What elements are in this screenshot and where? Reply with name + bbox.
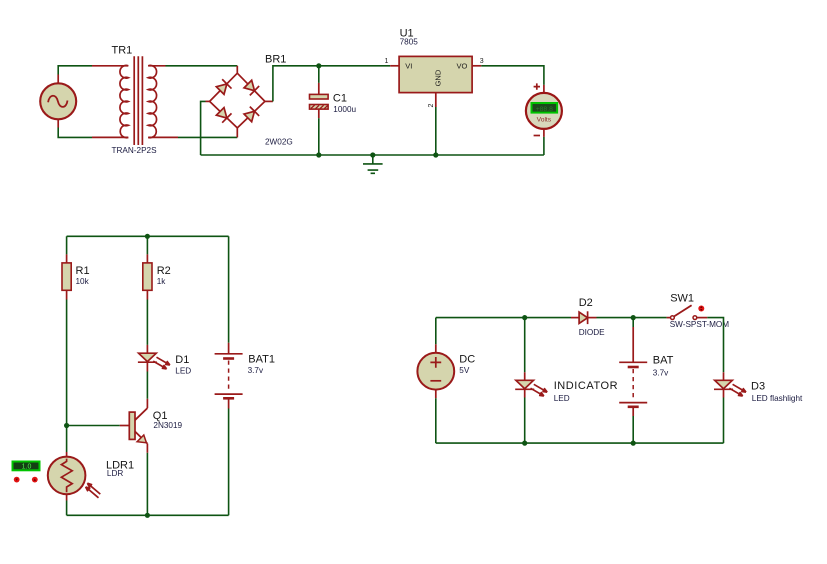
node emitter bottom	[145, 513, 150, 518]
wire D1 anode pin stub	[146, 345, 148, 353]
wire pin1 stub of U1	[390, 65, 399, 67]
svg-text:D3: D3	[751, 380, 765, 392]
capacitor C1	[310, 66, 357, 155]
svg-text:SW-SPST-MOM: SW-SPST-MOM	[670, 320, 730, 329]
wire BR1 right pin stub	[265, 100, 273, 102]
svg-text:LED: LED	[175, 366, 191, 375]
LED D1	[138, 353, 191, 375]
wire AC top to transformer primary	[58, 66, 92, 75]
wire right column lower	[228, 409, 230, 516]
svg-text:DC: DC	[459, 354, 475, 366]
wire D1 to Q1 collector	[146, 372, 148, 399]
diode D2	[579, 297, 605, 337]
wire transformer primary bottom pin	[92, 136, 128, 138]
voltmeter U2	[526, 93, 562, 129]
svg-text:VI: VI	[405, 62, 412, 71]
svg-text:VO: VO	[457, 62, 468, 71]
wire D3 to bottom rail	[723, 398, 725, 444]
BR1 diode upper-left	[216, 79, 232, 95]
wire SW1 right pin stub	[697, 317, 708, 319]
wire voltmeter bottom pin stub	[543, 129, 545, 137]
wire BR1 top pin stub	[236, 66, 238, 73]
wire D1 cathode pin stub	[146, 362, 148, 371]
wire BAT bottom pin stub	[632, 407, 634, 416]
BR1 diode lower-left	[216, 107, 232, 123]
wire bottom rail right circuit	[436, 442, 724, 444]
wire BAT column lower	[632, 416, 634, 443]
wire BR1 left pin stub	[206, 100, 210, 102]
voltmeter minus label	[534, 135, 540, 137]
wire transformer secondary bottom pin	[148, 136, 178, 138]
LED INDICATOR	[515, 380, 618, 403]
wire right column upper	[228, 236, 230, 342]
wire transformer secondary top pin	[148, 65, 165, 67]
wire R1 bottom pin stub	[66, 290, 68, 299]
wire BAT top pin stub	[632, 327, 634, 362]
wire switch to D3	[707, 318, 723, 373]
svg-text:3.7v: 3.7v	[248, 366, 264, 375]
svg-text:10k: 10k	[76, 277, 90, 286]
wire AC bottom pin stub	[57, 120, 59, 128]
wire R1 top pin stub	[66, 254, 68, 263]
resistor R2	[143, 263, 171, 290]
wire BR1 negative to bottom rail	[201, 101, 206, 155]
wire LDR top pin stub	[66, 452, 68, 457]
svg-text:D1: D1	[175, 354, 189, 366]
wire AC top pin stub	[57, 75, 59, 83]
svg-text:Volts: Volts	[537, 116, 552, 123]
wire AC bottom to transformer primary	[58, 128, 92, 138]
svg-text:1000u: 1000u	[333, 105, 356, 114]
wire D3 cathode pin stub	[723, 389, 725, 397]
switch SW1	[670, 293, 730, 329]
svg-text:BAT: BAT	[653, 355, 674, 367]
AC source	[40, 83, 76, 119]
wire U1 output to voltmeter	[481, 66, 544, 85]
wire D2 cathode pin stub	[588, 317, 597, 319]
transistor Q1	[129, 399, 182, 444]
svg-text:SW1: SW1	[670, 293, 694, 305]
node ground tap	[370, 152, 375, 157]
node indicator top	[522, 315, 527, 320]
node U1 pin2	[433, 152, 438, 157]
wire DC bottom pin stub	[435, 390, 437, 399]
wire secondary bottom to bridge	[178, 136, 237, 138]
svg-text:2W02G: 2W02G	[265, 138, 293, 147]
wire R2 to D1	[146, 300, 148, 345]
svg-text:R2: R2	[157, 265, 171, 277]
wire emitter to bottom rail	[146, 453, 148, 516]
LDR LDR1	[48, 457, 134, 495]
wire BAT column upper	[632, 318, 634, 327]
wire DC top pin stub	[435, 344, 437, 353]
wire base of Q1	[67, 425, 120, 427]
LED D3	[714, 380, 803, 403]
bridge rectifier BR1	[210, 53, 293, 146]
LDR interactive display	[13, 462, 40, 471]
wire DC bottom to rail	[435, 398, 437, 443]
node C1 bottom	[316, 152, 321, 157]
wire R2 top pin stub	[146, 254, 148, 263]
svg-text:5V: 5V	[459, 366, 470, 375]
svg-text:2N3019: 2N3019	[153, 421, 182, 430]
node indicator bottom	[522, 441, 527, 446]
wire BAT1 bottom pin stub	[228, 398, 230, 408]
wire left column upper	[66, 236, 68, 254]
wire BR1 positive up and right to U1	[273, 66, 390, 102]
wire D2 to switch	[597, 317, 667, 319]
wire BR1 bottom pin stub	[236, 128, 238, 137]
ground	[363, 155, 383, 173]
svg-text:TRAN-2P2S: TRAN-2P2S	[112, 146, 158, 155]
wire Q1 emitter pin stub	[146, 444, 148, 453]
transformer TR1	[112, 45, 158, 156]
wire left column lower	[66, 501, 68, 516]
battery BAT	[619, 355, 673, 407]
node BAT top	[631, 315, 636, 320]
wire INDICATOR anode pin stub	[524, 372, 526, 380]
wire voltmeter to bottom rail	[543, 137, 545, 155]
svg-text:TR1: TR1	[112, 45, 133, 57]
wire top rail left circuit	[67, 235, 229, 237]
node R2 top	[145, 234, 150, 239]
wire top rail right circuit segment DC to D2	[436, 317, 571, 319]
svg-text:DIODE: DIODE	[579, 328, 605, 337]
svg-text:+88.8: +88.8	[536, 106, 553, 113]
svg-text:LED: LED	[554, 394, 570, 403]
svg-text:7805: 7805	[400, 38, 419, 47]
LDR down button	[14, 477, 20, 483]
wire transformer primary top pin	[92, 65, 128, 67]
op-amp / regulator U1 7805	[399, 28, 472, 93]
wire bottom rail of power supply	[201, 154, 544, 156]
wire SW1 left pin stub	[667, 317, 671, 319]
wire voltmeter top pin stub	[543, 85, 545, 93]
wire mid column upper	[146, 236, 148, 254]
wire bottom rail left circuit	[67, 514, 229, 516]
wire indicator column lower	[524, 398, 526, 444]
svg-text:D2: D2	[579, 297, 593, 309]
svg-text:2: 2	[428, 104, 435, 108]
wire BAT1 top pin stub	[228, 343, 230, 354]
svg-text:1k: 1k	[157, 277, 167, 286]
wire D2 anode pin stub	[571, 317, 579, 319]
svg-text:LDR: LDR	[107, 469, 123, 478]
resistor R1	[62, 263, 90, 290]
LDR up button	[32, 477, 38, 483]
node Q1 base junction	[64, 423, 69, 428]
wire U1 pin2 stub	[435, 93, 437, 107]
SW1 actuator button	[698, 306, 704, 312]
wire D3 anode pin stub	[723, 372, 725, 380]
BR1 diode upper-right	[243, 79, 259, 95]
wire U1 pin3 stub	[472, 65, 481, 67]
svg-text:R1: R1	[76, 265, 90, 277]
node BAT bottom	[631, 441, 636, 446]
wire left column middle	[66, 300, 68, 453]
svg-text:3: 3	[480, 58, 484, 65]
svg-text:BR1: BR1	[265, 53, 286, 65]
svg-text:GND: GND	[434, 69, 443, 86]
wire R2 bottom pin stub	[146, 290, 148, 299]
svg-text:3.7v: 3.7v	[653, 369, 669, 378]
svg-text:1.0: 1.0	[22, 464, 32, 471]
svg-text:1: 1	[385, 58, 389, 65]
wire Q1 base pin stub	[120, 425, 130, 427]
DC source	[417, 353, 475, 390]
svg-text:INDICATOR: INDICATOR	[554, 380, 618, 392]
wire U1 pin2 to ground rail	[435, 107, 437, 155]
BR1 diode lower-right	[243, 107, 259, 123]
node C1 top	[316, 63, 321, 68]
svg-text:LED flashlight: LED flashlight	[752, 394, 803, 403]
svg-text:BAT1: BAT1	[248, 354, 275, 366]
wire LDR bottom pin stub	[66, 494, 68, 500]
wire indicator column upper	[524, 318, 526, 373]
voltmeter plus label	[534, 83, 540, 89]
LDR light arrow 1	[87, 483, 100, 494]
wire DC top to rail	[435, 318, 437, 345]
LDR light arrow 2	[86, 487, 99, 498]
wire INDICATOR cathode pin stub	[524, 389, 526, 397]
wire secondary top to bridge	[166, 65, 238, 67]
svg-text:C1: C1	[333, 92, 347, 104]
battery BAT1	[215, 354, 275, 399]
